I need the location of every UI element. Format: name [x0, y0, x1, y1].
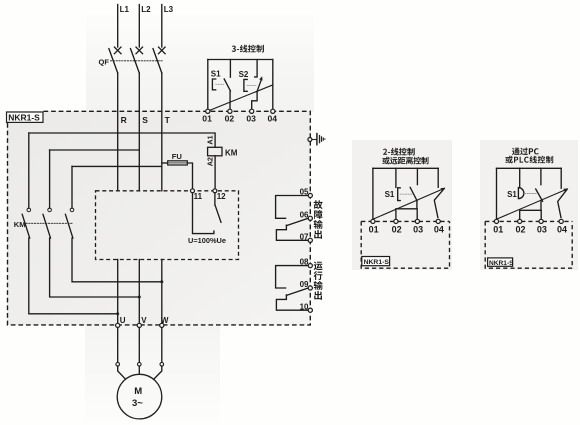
motor terminal circle V [138, 363, 142, 367]
svg-text:01: 01 [369, 224, 379, 234]
svg-text:NKR1-S: NKR1-S [489, 260, 514, 267]
svg-text:L1: L1 [120, 5, 130, 14]
PC/PLC terminal 04 [559, 219, 563, 223]
svg-text:S1: S1 [385, 190, 395, 199]
svg-text:KM: KM [14, 220, 26, 229]
svg-text:11: 11 [194, 192, 203, 201]
2-wire NKR1-S dashed box [361, 221, 449, 268]
run relay wire from 08 [276, 266, 308, 288]
junction dot W bypass [160, 280, 163, 283]
motor terminal circle U [116, 363, 120, 367]
svg-text:S1: S1 [211, 70, 221, 79]
2-wire wire column 04 upper [437, 168, 439, 187]
wire motor entry V [138, 366, 140, 374]
PC/PLC terminal 01 [494, 219, 498, 223]
wire L3 incoming [161, 5, 163, 48]
breaker QF pole 2 contact X [136, 47, 143, 54]
svg-text:01: 01 [202, 113, 212, 123]
2-wire terminal 02 [394, 219, 398, 223]
junction dot U bypass [116, 312, 119, 315]
run relay wire to 10 [276, 295, 308, 310]
3-wire control linkage diagonal wire [208, 85, 272, 111]
inner controller module dashed box [96, 191, 239, 260]
svg-text:02: 02 [516, 225, 526, 235]
2-wire wire column 03 upper [416, 168, 418, 184]
svg-text:L3: L3 [164, 5, 174, 14]
svg-text:A2: A2 [205, 157, 214, 166]
2-wire S1 upper fixed wire [395, 168, 397, 187]
wire KM bypass branch from T [72, 165, 162, 167]
terminal U [116, 323, 120, 327]
wire phase R vertical [117, 73, 119, 191]
wire fuse to terminal 11 [187, 163, 192, 189]
2-wire terminal 04 [436, 219, 440, 223]
wire KM coil feed horizontal A1 bus [29, 133, 215, 147]
wire motor entry W [154, 366, 162, 379]
3-wire control wire column 01 [207, 60, 209, 110]
NKR1-S main label box [7, 112, 44, 123]
2-wire terminal 01 [371, 219, 375, 223]
svg-text:04: 04 [434, 224, 444, 234]
breaker QF pole 2 blade [131, 49, 140, 73]
terminal 12 [213, 189, 217, 193]
svg-text:NKR1-S: NKR1-S [364, 259, 390, 266]
PC/PLC NKR1-S dashed box [485, 221, 572, 268]
svg-text:S2: S2 [239, 70, 249, 79]
terminal 01 [206, 109, 210, 113]
wire output U vertical [117, 260, 119, 324]
wire KM contact 3 lower to W [72, 238, 162, 282]
ground terminal [308, 138, 312, 142]
PC/PLC step wire joining terminals 02 03 [520, 201, 542, 219]
wire L2 incoming [138, 5, 140, 48]
pushbutton S2 step wire to terminal 03 [252, 92, 257, 110]
contactor KM coil [208, 147, 222, 156]
KM contact 2 blade [43, 214, 51, 238]
svg-text:03: 03 [537, 225, 547, 235]
pushbutton S2 actuator bracket [244, 79, 247, 91]
svg-text:04: 04 [268, 113, 278, 123]
svg-text:04: 04 [557, 225, 567, 235]
terminal V [137, 323, 141, 327]
2-wire S1 actuator dotted link [400, 193, 412, 195]
wire phase T vertical [161, 73, 163, 191]
KM contact 3 fixed circle [70, 208, 74, 212]
breaker QF pole 1 contact X [114, 47, 121, 54]
3-wire control title 3-线控制 [232, 45, 264, 53]
svg-text:S1: S1 [507, 190, 517, 199]
breaker QF pole 1 blade [109, 49, 118, 73]
2-wire wire column 01 [372, 168, 374, 219]
wire KM contact 1 upper [28, 133, 30, 208]
PC/PLC switch blade at 04 [558, 190, 567, 218]
PC/PLC NKR1-S box top dashed edge [485, 220, 572, 222]
wire KM contact 2 upper [49, 150, 51, 208]
svg-text:3~: 3~ [132, 398, 143, 409]
label 故障输出 vertical [314, 200, 323, 209]
2-wire S1 actuator bracket [398, 188, 401, 201]
terminal 08 [308, 264, 312, 268]
KM contact 2 fixed circle [48, 208, 52, 212]
breaker QF pole 3 contact X [159, 47, 166, 54]
wire KM contact 3 upper [71, 166, 73, 208]
2-wire long actuating arrow [373, 188, 444, 219]
PC/PLC wire column 03 upper [540, 168, 542, 184]
pushbutton S2 blade [257, 79, 262, 92]
KM contact 3 blade [65, 214, 73, 238]
2-wire terminal 03 [415, 219, 419, 223]
svg-text:NKR1-S: NKR1-S [8, 113, 40, 123]
svg-text:FU: FU [172, 152, 183, 161]
wire motor lead W [161, 328, 163, 363]
wire internal contact from terminal 12 [214, 193, 216, 205]
terminal 02 [228, 109, 232, 113]
svg-text:A1: A1 [205, 135, 214, 144]
svg-text:KM: KM [225, 149, 238, 158]
svg-text:QF: QF [99, 58, 110, 67]
3-wire control top bus wire [208, 59, 273, 61]
2-wire switch blade at 04 [434, 189, 444, 218]
wire output V vertical [138, 260, 140, 324]
PC/PLC terminal 03 [539, 219, 543, 223]
label 运行输出 vertical [314, 262, 323, 271]
fuse FU [168, 161, 188, 165]
PC/PLC arrowhead [563, 188, 568, 192]
wire motor lead V [138, 328, 140, 363]
PC/PLC terminal 02 [518, 219, 522, 223]
pushbutton S2 blade arrowhead [259, 76, 262, 80]
pushbutton S2 actuator dotted link [247, 84, 256, 86]
breaker QF linkage dotted line [111, 60, 163, 62]
pushbutton S1 actuator dotted link [216, 83, 224, 85]
wire phase S vertical [138, 73, 140, 191]
svg-text:U: U [120, 316, 126, 325]
svg-text:02: 02 [225, 113, 235, 123]
PC/PLC diagram title line2 或PLC线控制 [505, 156, 553, 164]
PC/PLC S1 upper fixed wire [519, 168, 521, 187]
wire output W vertical [161, 260, 163, 324]
pushbutton S1 blade [224, 79, 230, 91]
fault relay wire from 05 [276, 196, 308, 219]
PC/PLC NKR1-S label box [488, 258, 515, 267]
PC/PLC long actuating arrow [497, 189, 567, 219]
pushbutton S2 upper fixed wire [255, 60, 257, 77]
2-wire NKR1-S label box [362, 257, 390, 266]
pushbutton S1 actuator bracket [212, 79, 215, 90]
terminal 11 [191, 189, 195, 193]
motor terminal circle W [160, 363, 164, 367]
wire KM contact 2 lower to V [50, 238, 140, 297]
NKR1-S main enclosure dashed border [8, 111, 311, 325]
svg-text:01: 01 [493, 225, 503, 235]
wire KM coil A2 to terminal 12 [214, 156, 216, 189]
PC/PLC wire column 01 [496, 168, 498, 219]
KM linkage dotted line [26, 222, 74, 224]
wire fuse branch from T [162, 162, 168, 164]
2-wire step wire joining terminals 02 03 [396, 201, 417, 219]
wire motor lead U [117, 328, 119, 363]
wire motor entry U [118, 366, 126, 379]
PC/PLC S1 actuator semicircle [518, 188, 524, 199]
svg-text:M: M [134, 386, 142, 397]
2-wire S1 blade [410, 187, 417, 200]
PC/PLC diagram title line1 通过PC [512, 148, 539, 156]
PC/PLC S1 blade [536, 189, 543, 201]
wire KM bypass branch from S [50, 149, 140, 151]
wire KM contact 1 lower to U [29, 238, 118, 314]
KM contact 1 fixed circle [27, 208, 31, 212]
2-wire diagram title line1 2-线控制 [383, 148, 415, 156]
wire L1 incoming [117, 5, 119, 48]
2-wire NKR1-S box top dashed edge [361, 220, 449, 222]
terminal 09 [308, 286, 312, 290]
terminal W [160, 323, 164, 327]
2-wire diagram title line2 或远距离控制 [382, 157, 428, 165]
PC/PLC top bus wire [497, 167, 562, 169]
svg-text:S: S [142, 115, 148, 125]
terminal 04 [271, 109, 275, 113]
svg-text:V: V [141, 316, 147, 325]
svg-text:R: R [121, 115, 127, 125]
PC/PLC wire column 04 upper [560, 168, 562, 188]
3-wire control wire column 04 [272, 60, 274, 110]
PC/PLC S1 actuator dotted link [525, 193, 537, 195]
ground symbol [312, 133, 325, 146]
svg-text:W: W [161, 316, 169, 325]
terminal 07 [308, 238, 312, 242]
motor M circle [117, 374, 162, 419]
svg-text:03: 03 [246, 113, 256, 123]
junction dot V bypass [138, 296, 141, 299]
run relay blade from 09 [286, 288, 308, 295]
terminal 06 [308, 216, 312, 220]
fault relay blade from 06 [286, 218, 308, 225]
svg-text:12: 12 [217, 192, 226, 201]
2-wire arrowhead [441, 188, 446, 192]
terminal 03 [250, 109, 254, 113]
pushbutton S1 upper fixed wire [229, 60, 231, 78]
svg-text:03: 03 [413, 224, 423, 234]
svg-text:U=100%Ue: U=100%Ue [188, 236, 226, 245]
internal bypass-enable contact blade [215, 205, 221, 222]
svg-text:L2: L2 [141, 5, 151, 14]
wire internal contact from terminal 11 [193, 193, 214, 234]
breaker QF pole 3 blade [153, 49, 162, 73]
terminal 05 [308, 193, 312, 197]
terminal 10 [308, 308, 312, 312]
KM contact 1 blade [22, 214, 30, 238]
svg-text:02: 02 [392, 224, 402, 234]
svg-text:T: T [165, 115, 171, 125]
2-wire top bus wire [373, 167, 438, 169]
pushbutton S1 lower wire to terminal 02 [229, 91, 231, 110]
fault relay wire to 07 [276, 225, 308, 240]
